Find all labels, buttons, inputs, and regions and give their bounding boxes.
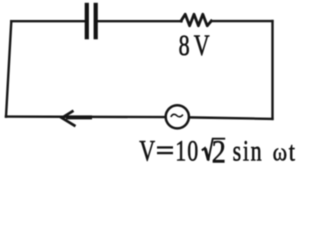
svg-text:10: 10 [175, 134, 199, 166]
svg-text:sin: sin [233, 134, 264, 166]
svg-text:t: t [289, 138, 295, 166]
svg-text:V: V [139, 134, 155, 166]
svg-text:2: 2 [212, 133, 226, 166]
svg-text:8V: 8V [179, 29, 214, 62]
svg-text:ω: ω [273, 139, 287, 166]
